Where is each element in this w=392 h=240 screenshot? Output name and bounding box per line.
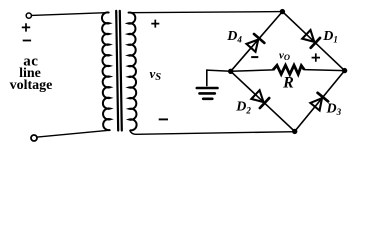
svg-text:D2: D2	[235, 100, 251, 116]
terminal (top ac input)	[26, 13, 31, 18]
diode D4	[247, 40, 259, 52]
wire branch B-R (through D3)	[295, 71, 345, 132]
wire top-left	[32, 13, 109, 16]
plus (vO polarity)	[312, 53, 320, 61]
wire secondary-bottom to node B	[130, 130, 295, 134]
transformer secondary winding	[128, 12, 136, 130]
diode D1	[302, 30, 314, 42]
ground stem	[206, 70, 208, 86]
diode D3	[310, 98, 322, 110]
ground symbol	[197, 87, 218, 90]
transformer core	[116, 11, 118, 131]
wire resistor R to node R	[304, 70, 344, 71]
wire secondary-top to node T	[128, 12, 282, 13]
node L (junction)	[228, 69, 233, 74]
node B (junction)	[292, 129, 297, 134]
svg-text:D4: D4	[226, 29, 242, 44]
terminal (bottom ac input)	[31, 135, 37, 141]
wire branch L-B (through D2)	[231, 71, 295, 131]
svg-text:vO: vO	[279, 50, 290, 63]
node R (junction)	[342, 68, 347, 73]
minus (ac input polarity)	[23, 40, 31, 42]
wire branch T-L (through D4)	[231, 12, 283, 72]
svg-text:R: R	[282, 75, 294, 92]
wire branch T-R (through D1)	[282, 12, 344, 71]
minus (secondary vS polarity)	[159, 118, 168, 120]
svg-text:vS: vS	[150, 66, 162, 83]
plus (ac input polarity)	[22, 23, 30, 31]
minus (vO polarity)	[251, 56, 258, 58]
resistor R	[273, 65, 304, 74]
plus (secondary vS polarity)	[151, 20, 159, 28]
wire node L to ground	[207, 70, 231, 71]
wire node L to resistor R	[231, 70, 273, 71]
svg-text:D1: D1	[322, 29, 338, 44]
node T (junction)	[280, 9, 285, 14]
diode D2	[251, 90, 263, 102]
svg-text:voltage: voltage	[10, 78, 53, 93]
svg-text:D3: D3	[326, 101, 342, 117]
wire bottom-left	[37, 130, 110, 137]
transformer primary winding	[102, 12, 110, 130]
